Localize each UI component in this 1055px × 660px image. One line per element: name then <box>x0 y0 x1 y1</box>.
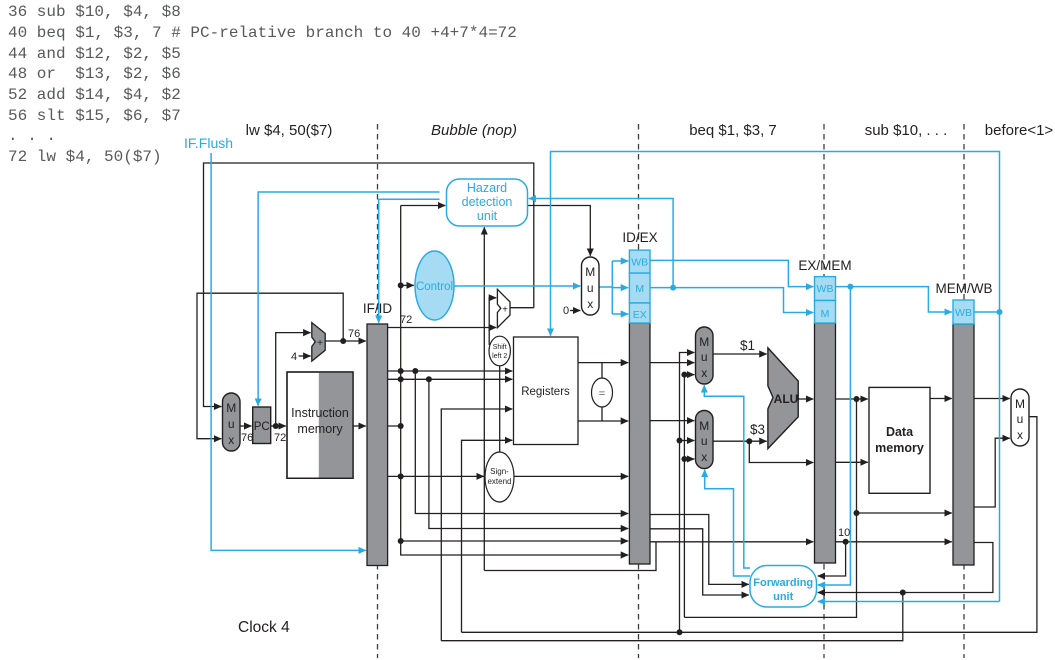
equality comparator <box>592 378 613 407</box>
svg-text:unit: unit <box>773 591 793 603</box>
svg-text:x: x <box>701 450 707 464</box>
svg-text:52 add $14, $4, $2: 52 add $14, $4, $2 <box>8 86 181 104</box>
wire: instruction bus to Control <box>401 284 414 286</box>
wire: MEM/WB rd out and down to forwarding row <box>818 543 993 593</box>
junction dot: bus read reg1 <box>398 368 404 374</box>
cyan wire: arrow into ID/EX EX box <box>612 313 628 315</box>
EX/MEM WB box <box>815 277 836 301</box>
cyan junction dot: EX/MEM WB split <box>847 284 853 290</box>
PC mux (gray) <box>223 393 241 451</box>
junction dot: EX/MEM rd split <box>843 539 849 545</box>
wire: MEM/WB read data to WB mux <box>974 398 1010 400</box>
junction dot: bus sign-extend row <box>398 473 404 479</box>
0-mux (white) <box>582 257 600 315</box>
svg-text:unit: unit <box>477 209 498 223</box>
svg-text:u: u <box>701 434 708 448</box>
svg-text:76: 76 <box>241 432 253 444</box>
wire: ALU result bypass vertical right of EX/MEM <box>684 399 856 617</box>
svg-text:M: M <box>226 401 236 415</box>
svg-text:Control: Control <box>416 281 453 293</box>
junction dot: bus instruction row <box>398 423 404 429</box>
cyan wire: hazard IF/IDWrite down into IF/ID top <box>379 199 440 322</box>
svg-text:ID/EX: ID/EX <box>622 230 657 245</box>
svg-text:Forwarding: Forwarding <box>753 577 813 589</box>
svg-text:M: M <box>821 308 830 320</box>
wire: EX/MEM store data to data memory write data <box>836 461 868 463</box>
svg-text:40 beq $1, $3, 7 # PC-relative: 40 beq $1, $3, 7 # PC-relative branch to… <box>8 24 517 42</box>
svg-text:36 sub $10, $4, $8: 36 sub $10, $4, $8 <box>8 3 181 21</box>
svg-text:M: M <box>585 265 595 279</box>
wire: constant 4 into adder <box>299 355 311 357</box>
cyan wire: control to 0-mux <box>454 285 580 287</box>
ID/EX EX box <box>629 303 650 323</box>
svg-text:MEM/WB: MEM/WB <box>936 281 993 296</box>
WB mux (white) <box>1011 389 1029 446</box>
svg-text:72: 72 <box>274 432 286 444</box>
wire: PC mux output to PC <box>240 425 252 427</box>
svg-text:56 slt $15, $6, $7: 56 slt $15, $6, $7 <box>8 107 181 125</box>
wire: ALU output to EX/MEM <box>798 398 813 400</box>
svg-text:PC: PC <box>254 421 270 433</box>
svg-text:$3: $3 <box>750 422 765 437</box>
stage divider dashed line 4 <box>963 124 965 658</box>
wire: read register 1 row <box>388 370 513 372</box>
svg-text:IF.Flush: IF.Flush <box>184 135 233 151</box>
svg-text:u: u <box>228 417 235 431</box>
wire: ID/EX read data 1 to ALU mux 1 <box>651 362 695 364</box>
wire: instruction memory output to IF/ID <box>353 425 366 427</box>
wire: ID/EX rs to forwarding unit <box>651 515 749 585</box>
wire: instruction bus vertical from IF/ID <box>388 206 629 556</box>
wire: rd down to write-register return line <box>441 593 903 641</box>
wire: write-back value vertical to mux forwarding inputs <box>680 353 695 633</box>
svg-text:0: 0 <box>563 305 569 317</box>
cyan wire: MEM/WB WB out to right vertical <box>974 311 999 313</box>
svg-text:M: M <box>1015 397 1025 411</box>
svg-text:4: 4 <box>291 351 297 363</box>
junction dot: ALU result bypass row <box>854 510 860 516</box>
cyan junction dot: MEM/WB WB out <box>997 309 1003 315</box>
junction dot: WB value bottom line <box>677 629 683 635</box>
svg-text:before<1>: before<1> <box>985 122 1054 139</box>
cyan wire: arrow into ID/EX WB box <box>612 260 628 262</box>
cyan wire: ForwardA select up to mux1 <box>704 385 750 568</box>
wire: instruction bus top to hazard detection unit <box>401 205 446 207</box>
wire: PC+4 adder output to IF/ID <box>326 340 366 342</box>
Shift left 2 ellipse <box>489 336 510 366</box>
svg-text:Data: Data <box>886 425 914 439</box>
EX/MEM pipeline register gray bar <box>815 323 836 563</box>
EX/MEM M box <box>815 301 836 324</box>
svg-text:IF/ID: IF/ID <box>363 301 392 316</box>
Sign-extend ellipse <box>485 452 514 502</box>
wire: EX/MEM ALU result forward vertical <box>684 375 694 618</box>
junction dot: WB value to mux2 <box>677 438 683 444</box>
wire: PC value up to +4 adder top input <box>276 333 311 426</box>
junction dot: bus read reg2 <box>398 376 404 382</box>
svg-text:x: x <box>587 297 593 311</box>
wire: IF/ID PC+4 out to branch adder bottom input <box>388 327 497 329</box>
Data memory <box>869 387 930 493</box>
junction dot: PC output <box>273 423 279 429</box>
svg-text:sub $10, . . .: sub $10, . . . <box>865 122 948 139</box>
cyan wire: ID/EX MemRead up to hazard unit <box>529 199 673 288</box>
ALU (gray) <box>768 348 798 449</box>
MEM/WB pipeline register gray bar <box>953 324 974 565</box>
svg-text:EX: EX <box>633 309 647 321</box>
svg-text:M: M <box>635 283 644 295</box>
svg-text:lw $4, 50($7): lw $4, 50($7) <box>246 122 333 139</box>
cyan junction dot: ID/EX M line <box>670 285 676 291</box>
junction dot: store data split <box>746 438 752 444</box>
wire: branch target rectangle (adder output up over top to PC mux input 0) <box>204 163 534 407</box>
wire: ALU mux1 output to ALU <box>713 353 767 355</box>
ID/EX pipeline register gray bar <box>629 323 650 564</box>
Instruction memory <box>287 372 353 478</box>
wire: WB mux output return line <box>462 417 1037 633</box>
svg-text:x: x <box>1017 428 1023 442</box>
svg-text:48 or $13, $2, $6: 48 or $13, $2, $6 <box>8 65 181 83</box>
svg-text:WB: WB <box>631 257 648 269</box>
svg-text:WB: WB <box>955 307 972 319</box>
wire: rs field down to ID/EX <box>415 371 628 514</box>
svg-text:u: u <box>587 281 594 295</box>
svg-text:beq $1, $3, 7: beq $1, $3, 7 <box>689 122 777 139</box>
svg-text:ALU: ALU <box>774 392 799 406</box>
cyan wire: write-back RegWrite long path to Registers <box>551 152 1000 602</box>
svg-text:+: + <box>502 305 508 316</box>
wire: shift-left-2 output up to branch adder top input <box>489 298 496 345</box>
ALU mux 2 (gray) <box>696 411 714 469</box>
wire: PC output to instruction memory <box>271 425 286 427</box>
wire: sign-extend input row <box>388 475 484 477</box>
junction dot: EXMEM forward mux1 <box>681 372 687 378</box>
svg-text:M: M <box>699 419 709 433</box>
svg-text:10: 10 <box>838 527 850 539</box>
junction dot: rt branch <box>426 376 432 382</box>
ALU mux 1 (gray) <box>696 327 714 384</box>
svg-text:+: + <box>317 338 323 349</box>
cyan wire: ForwardB select up to mux2 <box>705 470 750 576</box>
IF/ID pipeline register <box>367 324 388 566</box>
stage divider dashed line 2 <box>638 124 640 658</box>
wire: write register number from bottom into Registers <box>441 409 512 641</box>
svg-text:72 lw $4, 50($7): 72 lw $4, 50($7) <box>8 148 162 166</box>
wire: registers read data 2 to ID/EX <box>578 420 628 422</box>
svg-text:EX/MEM: EX/MEM <box>798 258 851 273</box>
wire: ID/EX read data 2 to ALU mux 2 <box>651 420 695 422</box>
svg-text:44 and $12, $2, $5: 44 and $12, $2, $5 <box>8 45 181 63</box>
svg-text:memory: memory <box>875 441 924 455</box>
svg-text:M: M <box>699 335 709 349</box>
svg-text:Hazard: Hazard <box>467 181 507 195</box>
svg-text:extend: extend <box>487 477 511 486</box>
wire: rd row ID/EX to EX/MEM <box>651 541 814 543</box>
cyan wire: EX/MEM WB to MEM/WB WB <box>836 287 952 312</box>
stage divider dashed line 1 <box>377 124 379 658</box>
cyan wire: 0-mux output to ID/EX control boxes <box>599 261 612 314</box>
instruction listing (monospace program text) <box>8 3 517 166</box>
wire: PC+4 feedback (adder output up and left to PC mux input 1) <box>197 293 343 439</box>
svg-text:. . .: . . . <box>8 127 56 145</box>
wire: ID/EX rt to forwarding unit <box>651 529 749 595</box>
wire: rt field down to ID/EX <box>429 379 628 528</box>
junction dot: adder output <box>340 338 346 344</box>
PC register <box>253 407 271 444</box>
svg-text:Registers: Registers <box>521 386 570 398</box>
svg-text:Instruction: Instruction <box>291 406 349 420</box>
Control ellipse <box>415 251 454 320</box>
svg-text:=: = <box>599 388 605 400</box>
svg-text:x: x <box>228 433 234 447</box>
MEM/WB WB box <box>953 300 974 324</box>
Registers box <box>514 337 579 445</box>
Forwarding unit <box>750 566 817 608</box>
ID/EX WB box <box>629 250 650 273</box>
svg-text:Bubble (nop): Bubble (nop) <box>431 122 517 139</box>
wire: data memory read data to MEM/WB <box>930 398 952 400</box>
wire: EX/MEM forward branch into mux2 <box>684 458 694 460</box>
wire: store data from mux2 output down into EX/MEM <box>749 441 813 462</box>
wire: hazard unit output to 0-mux <box>528 206 591 256</box>
wire: WB value branch into mux2 <box>680 440 695 442</box>
wire: rd field row to ID/EX <box>401 540 629 542</box>
PC+4 adder (gray) <box>312 323 325 362</box>
cyan wire: hazard PCWrite to PC <box>258 192 439 406</box>
branch adder (white) <box>497 289 510 327</box>
ID/EX M box <box>629 273 650 303</box>
junction dot: MEM/WB rd return <box>900 590 906 596</box>
wire: sign-extend output to ID/EX <box>514 475 628 477</box>
wire: ALU result into MEM/WB <box>857 512 952 514</box>
cyan wire: MEM/WB RegWrite to forwarding unit <box>818 601 1000 603</box>
wire: shift-left-2 feed from sign-extend row <box>499 366 501 477</box>
wire: EX/MEM ALU result to data memory address <box>836 398 868 400</box>
junction dot: ALU result split <box>854 396 860 402</box>
cyan wire: ID/EX WB to EX/MEM WB <box>651 260 814 286</box>
svg-text:72: 72 <box>400 314 412 326</box>
svg-text:Sign-: Sign- <box>490 467 509 476</box>
stage divider dashed line 3 <box>823 124 825 658</box>
svg-text:Clock 4: Clock 4 <box>238 619 290 636</box>
wire: equality comparator stubs <box>601 363 603 421</box>
cyan wire: ID/EX M to EX/MEM M <box>651 288 814 313</box>
svg-text:left 2: left 2 <box>492 353 507 360</box>
wire: ALU mux2 output to ALU <box>713 440 767 442</box>
wire: read register 2 row <box>388 378 513 380</box>
arrowhead for branch target into PC mux <box>214 406 221 408</box>
svg-text:detection: detection <box>462 195 513 209</box>
cyan wire: EX/MEM RegWrite down to forwarding unit <box>818 287 851 585</box>
svg-text:Shift: Shift <box>493 344 507 351</box>
junction dot: rs branch <box>412 368 418 374</box>
wire: write data from bottom into Registers <box>462 440 513 632</box>
junction dot: bus to control <box>398 282 404 288</box>
cyan wire: IF.Flush into IF/ID <box>211 153 366 550</box>
svg-text:memory: memory <box>297 422 343 436</box>
svg-text:WB: WB <box>817 283 834 295</box>
svg-text:u: u <box>701 350 708 364</box>
svg-text:x: x <box>701 366 707 380</box>
wire: hazard unit rs/rt sense down to rd row junction <box>484 227 656 570</box>
wire: rd row EX/MEM to MEM/WB <box>836 541 952 543</box>
svg-text:u: u <box>1017 412 1024 426</box>
svg-text:$1: $1 <box>740 338 755 353</box>
junction dot: EXMEM forward mux2 <box>681 456 687 462</box>
Hazard detection unit <box>447 179 528 226</box>
svg-text:76: 76 <box>348 328 360 340</box>
junction dot: bus rd row <box>398 538 404 544</box>
wire: EX/MEM rd down to forwarding unit <box>818 542 846 576</box>
cyan wire: arrow into ID/EX M box <box>612 287 628 289</box>
wire: registers read data 1 to ID/EX <box>578 362 628 364</box>
wire: MEM/WB ALU result to WB mux <box>974 438 1010 507</box>
